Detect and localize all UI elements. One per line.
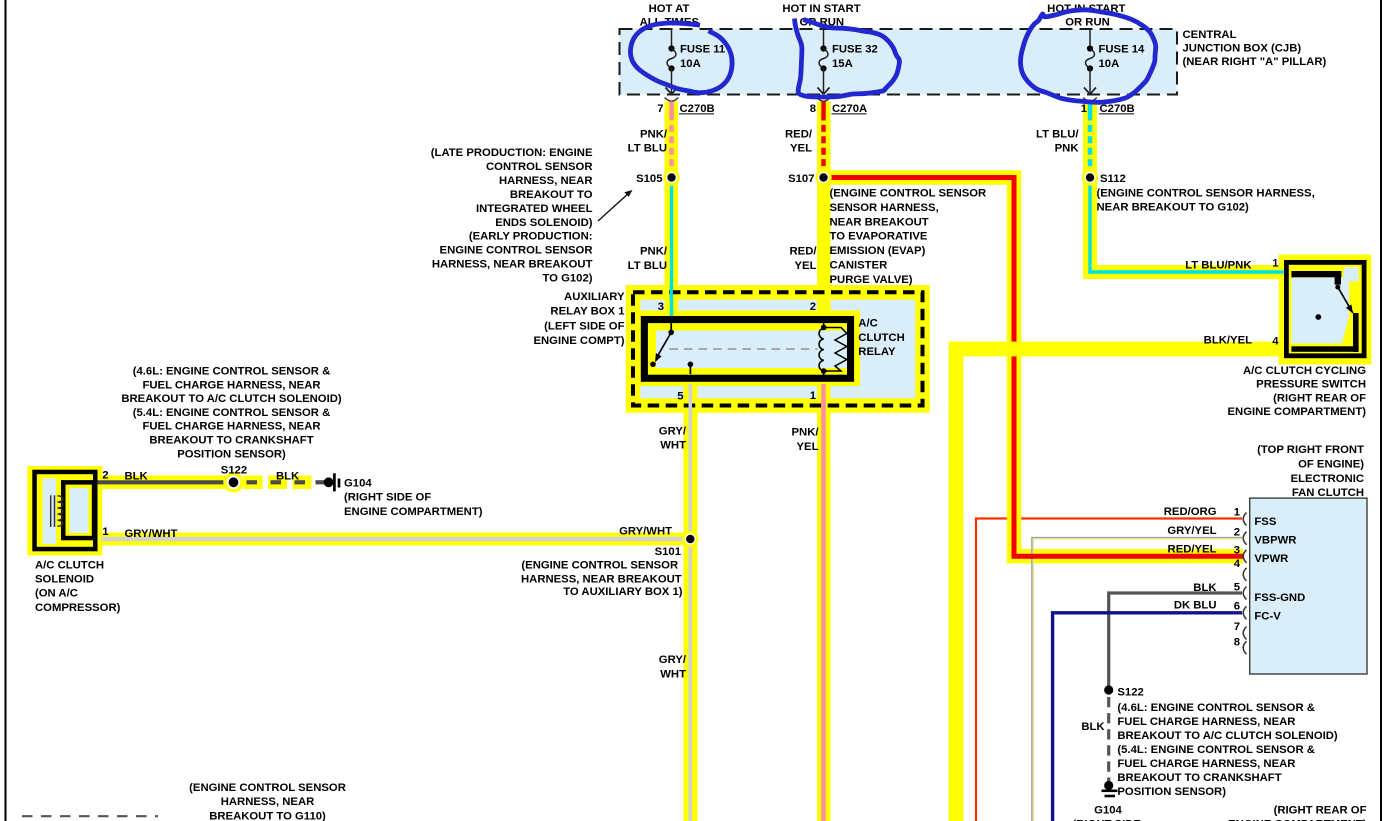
svg-text:4: 4 [1272,336,1279,348]
svg-text:RELAY BOX 1: RELAY BOX 1 [550,306,624,318]
svg-text:C270B: C270B [680,103,715,115]
svg-text:(RIGHT REAR OF: (RIGHT REAR OF [1274,805,1367,817]
svg-text:ELECTRONIC: ELECTRONIC [1291,473,1364,485]
svg-text:ENGINE COMPT): ENGINE COMPT) [533,335,624,347]
svg-text:POSITION SENSOR): POSITION SENSOR) [1117,786,1226,798]
svg-text:BREAKOUT TO A/C CLUTCH SOLENOI: BREAKOUT TO A/C CLUTCH SOLENOID) [121,393,342,405]
svg-text:GRY/: GRY/ [659,654,687,666]
svg-text:PNK/: PNK/ [640,129,668,141]
svg-text:PNK/: PNK/ [640,246,668,258]
svg-text:S122: S122 [221,464,247,476]
svg-text:A/C: A/C [858,318,877,330]
svg-text:HARNESS, NEAR BREAKOUT: HARNESS, NEAR BREAKOUT [521,574,682,586]
svg-text:YEL: YEL [797,441,819,453]
svg-text:1: 1 [102,526,108,538]
svg-text:FUEL CHARGE HARNESS, NEAR: FUEL CHARGE HARNESS, NEAR [1117,758,1295,770]
svg-text:10A: 10A [680,58,701,70]
svg-text:HOT IN START: HOT IN START [782,3,860,15]
svg-text:G104: G104 [344,477,372,489]
svg-text:GRY/WHT: GRY/WHT [619,526,672,538]
svg-text:(LEFT SIDE OF: (LEFT SIDE OF [544,320,624,332]
svg-text:BLK: BLK [125,471,149,483]
svg-text:1: 1 [1272,258,1278,270]
svg-text:A/C CLUTCH: A/C CLUTCH [35,560,104,572]
svg-text:LT BLU/PNK: LT BLU/PNK [1185,260,1252,272]
svg-text:RELAY: RELAY [858,346,896,358]
svg-text:C270A: C270A [832,103,867,115]
svg-text:(RIGHT SIDE OF: (RIGHT SIDE OF [344,492,431,504]
svg-text:(EARLY PRODUCTION:: (EARLY PRODUCTION: [469,231,593,243]
svg-text:COMPRESSOR): COMPRESSOR) [35,602,121,614]
svg-text:BLK: BLK [1193,582,1217,594]
svg-text:BLK: BLK [1081,721,1105,733]
svg-text:PNK: PNK [1055,143,1080,155]
svg-text:GRY/YEL: GRY/YEL [1167,525,1216,537]
svg-text:CANISTER: CANISTER [830,260,888,272]
svg-text:FUEL CHARGE HARNESS, NEAR: FUEL CHARGE HARNESS, NEAR [142,379,320,391]
svg-text:FSS-GND: FSS-GND [1254,592,1305,604]
svg-text:(ENGINE CONTROL SENSOR: (ENGINE CONTROL SENSOR [830,188,987,200]
svg-text:S105: S105 [636,173,662,185]
svg-text:YEL: YEL [795,260,817,272]
svg-text:1: 1 [1081,103,1087,115]
svg-text:HARNESS, NEAR: HARNESS, NEAR [221,796,315,808]
svg-text:1: 1 [810,390,816,402]
svg-text:ENDS SOLENOID): ENDS SOLENOID) [495,217,593,229]
svg-text:GRY/: GRY/ [659,426,687,438]
svg-text:LT BLU: LT BLU [628,143,667,155]
svg-text:POSITION SENSOR): POSITION SENSOR) [177,448,286,460]
svg-text:FSS: FSS [1254,516,1276,528]
svg-text:TO EVAPORATIVE: TO EVAPORATIVE [830,231,928,243]
svg-text:8: 8 [810,103,816,115]
svg-text:ENGINE COMPARTMENT): ENGINE COMPARTMENT) [344,506,483,518]
svg-text:OR RUN: OR RUN [1065,17,1110,29]
svg-text:HOT AT: HOT AT [649,3,690,15]
svg-text:RED/: RED/ [785,129,813,141]
svg-text:2: 2 [102,470,108,482]
svg-text:LT BLU/: LT BLU/ [1036,129,1079,141]
svg-text:3: 3 [658,301,664,313]
svg-text:FC-V: FC-V [1254,610,1281,622]
svg-text:ENGINE CONTROL SENSOR: ENGINE CONTROL SENSOR [440,245,593,257]
svg-text:WHT: WHT [660,440,686,452]
svg-text:FUSE 11: FUSE 11 [680,44,725,56]
svg-text:BREAKOUT TO CRANKSHAFT: BREAKOUT TO CRANKSHAFT [149,435,313,447]
svg-text:7: 7 [657,103,663,115]
svg-text:S112: S112 [1100,173,1126,185]
svg-text:RED/ORG: RED/ORG [1164,506,1217,518]
svg-text:BREAKOUT TO CRANKSHAFT: BREAKOUT TO CRANKSHAFT [1117,772,1281,784]
svg-text:CONTROL SENSOR: CONTROL SENSOR [486,161,593,173]
svg-text:BREAKOUT TO: BREAKOUT TO [510,189,593,201]
svg-text:S101: S101 [655,546,681,558]
svg-text:RED/YEL: RED/YEL [1168,544,1217,556]
svg-text:15A: 15A [832,58,853,70]
svg-text:NEAR BREAKOUT: NEAR BREAKOUT [830,216,929,228]
svg-text:JUNCTION BOX (CJB): JUNCTION BOX (CJB) [1183,43,1302,55]
svg-text:6: 6 [1234,601,1240,613]
svg-text:HARNESS, NEAR: HARNESS, NEAR [499,175,593,187]
svg-text:(NEAR RIGHT "A" PILLAR): (NEAR RIGHT "A" PILLAR) [1183,56,1327,68]
svg-text:(ENGINE CONTROL SENSOR: (ENGINE CONTROL SENSOR [521,560,678,572]
svg-text:C270B: C270B [1100,103,1135,115]
svg-text:AUXILIARY: AUXILIARY [564,291,625,303]
svg-text:VPWR: VPWR [1254,553,1288,565]
svg-text:PRESSURE SWITCH: PRESSURE SWITCH [1256,379,1366,391]
svg-text:5: 5 [1234,582,1240,594]
svg-text:5: 5 [677,391,683,403]
svg-text:DK BLU: DK BLU [1174,600,1217,612]
svg-text:S107: S107 [788,173,814,185]
svg-text:4: 4 [1234,558,1241,570]
svg-text:(4.6L: ENGINE CONTROL SENSOR &: (4.6L: ENGINE CONTROL SENSOR & [1117,702,1315,714]
svg-text:YEL: YEL [790,143,812,155]
svg-text:OF ENGINE): OF ENGINE) [1298,458,1364,470]
svg-text:WHT: WHT [660,669,686,681]
svg-text:(RIGHT REAR OF: (RIGHT REAR OF [1273,392,1366,404]
svg-text:1: 1 [1234,507,1240,519]
svg-text:3: 3 [1234,545,1240,557]
svg-text:(5.4L: ENGINE CONTROL SENSOR &: (5.4L: ENGINE CONTROL SENSOR & [133,407,331,419]
svg-text:2: 2 [1234,527,1240,539]
svg-text:FUEL CHARGE HARNESS, NEAR: FUEL CHARGE HARNESS, NEAR [1117,716,1295,728]
svg-text:(ENGINE CONTROL SENSOR HARNESS: (ENGINE CONTROL SENSOR HARNESS, [1097,188,1315,200]
svg-text:CENTRAL: CENTRAL [1183,29,1237,41]
svg-text:G104: G104 [1094,805,1122,817]
svg-text:FUSE 14: FUSE 14 [1099,44,1146,56]
svg-text:FUSE 32: FUSE 32 [832,44,878,56]
svg-text:A/C CLUTCH CYCLING: A/C CLUTCH CYCLING [1243,365,1366,377]
svg-text:BLK: BLK [276,471,300,483]
svg-text:VBPWR: VBPWR [1254,535,1296,547]
svg-text:FAN CLUTCH: FAN CLUTCH [1292,487,1364,499]
svg-text:FUEL CHARGE HARNESS, NEAR: FUEL CHARGE HARNESS, NEAR [142,421,320,433]
svg-text:ENGINE COMPARTMENT): ENGINE COMPARTMENT) [1228,406,1367,418]
svg-text:GRY/WHT: GRY/WHT [125,528,178,540]
svg-text:BLK/YEL: BLK/YEL [1204,335,1252,347]
svg-text:(TOP RIGHT FRONT: (TOP RIGHT FRONT [1257,444,1364,456]
svg-text:(LATE PRODUCTION: ENGINE: (LATE PRODUCTION: ENGINE [431,147,593,159]
svg-text:SOLENOID: SOLENOID [35,574,94,586]
svg-text:RED/: RED/ [790,246,818,258]
svg-text:BREAKOUT TO G110): BREAKOUT TO G110) [209,811,326,821]
svg-text:INTEGRATED WHEEL: INTEGRATED WHEEL [476,203,593,215]
svg-text:8: 8 [1234,637,1240,649]
svg-text:7: 7 [1234,621,1240,633]
svg-text:(ON A/C: (ON A/C [35,588,78,600]
svg-text:CLUTCH: CLUTCH [858,332,904,344]
svg-text:HARNESS, NEAR BREAKOUT: HARNESS, NEAR BREAKOUT [432,259,593,271]
svg-text:BREAKOUT TO A/C CLUTCH SOLENOI: BREAKOUT TO A/C CLUTCH SOLENOID) [1117,730,1338,742]
svg-text:(4.6L: ENGINE CONTROL SENSOR &: (4.6L: ENGINE CONTROL SENSOR & [133,366,331,378]
svg-text:S122: S122 [1117,686,1143,698]
svg-text:2: 2 [810,301,816,313]
svg-text:EMISSION (EVAP): EMISSION (EVAP) [830,245,926,257]
svg-text:10A: 10A [1099,58,1120,70]
svg-text:SENSOR HARNESS,: SENSOR HARNESS, [830,202,939,214]
svg-text:PURGE VALVE): PURGE VALVE) [830,274,913,286]
svg-text:LT BLU: LT BLU [628,260,667,272]
svg-text:NEAR BREAKOUT TO G102): NEAR BREAKOUT TO G102) [1097,202,1250,214]
svg-text:TO G102): TO G102) [542,273,592,285]
svg-text:PNK/: PNK/ [792,427,820,439]
svg-text:(ENGINE CONTROL SENSOR: (ENGINE CONTROL SENSOR [189,782,346,794]
svg-text:TO AUXILIARY BOX 1): TO AUXILIARY BOX 1) [563,586,683,598]
svg-text:(5.4L: ENGINE CONTROL SENSOR &: (5.4L: ENGINE CONTROL SENSOR & [1117,744,1315,756]
